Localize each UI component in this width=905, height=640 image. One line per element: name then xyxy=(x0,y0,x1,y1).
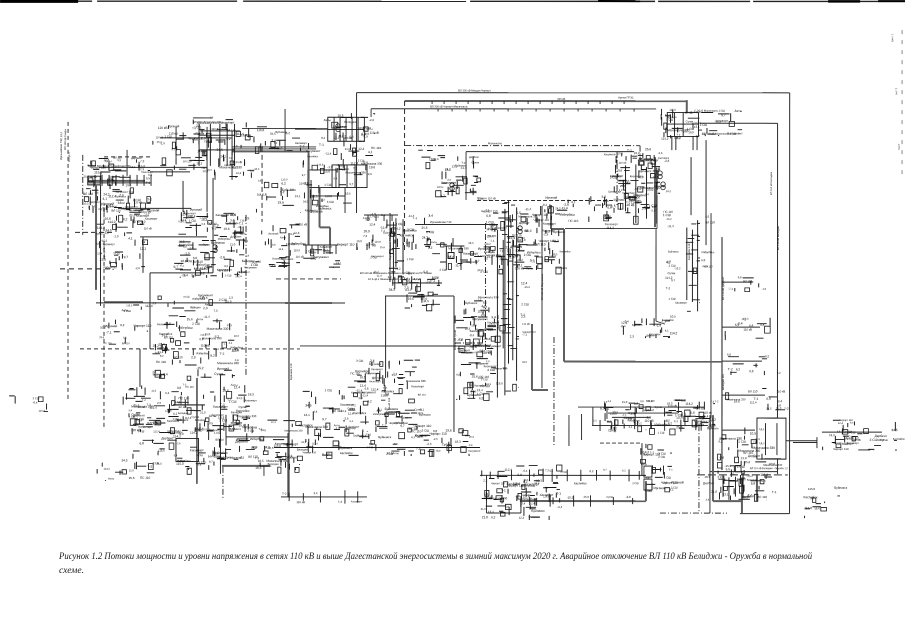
svg-text:110 кВ: 110 кВ xyxy=(156,136,164,139)
svg-text:0,8: 0,8 xyxy=(652,205,656,209)
svg-text:Касумкент: Касумкент xyxy=(194,267,209,271)
wire v607 xyxy=(606,407,608,419)
svg-text:2 СШ: 2 СШ xyxy=(658,452,666,456)
svg-text:5,5: 5,5 xyxy=(705,215,709,219)
svg-text:2,3: 2,3 xyxy=(129,190,134,194)
svg-text:10,5: 10,5 xyxy=(268,447,274,450)
svg-text:-2,6: -2,6 xyxy=(135,266,140,270)
wire h215 tree xyxy=(364,214,398,216)
svg-text:6,8: 6,8 xyxy=(486,337,491,341)
svg-text:Чирюрт 110: Чирюрт 110 xyxy=(303,451,317,454)
svg-text:12,4: 12,4 xyxy=(293,231,299,235)
svg-text:25,6: 25,6 xyxy=(99,336,104,339)
tree ticks xyxy=(367,215,369,221)
svg-text:Каспийск: Каспийск xyxy=(617,179,630,183)
svg-text:Избербаш: Избербаш xyxy=(560,213,576,217)
node chain gray Belidzhi xyxy=(520,494,646,506)
cluster w4 xyxy=(251,222,308,268)
svg-text:Касумкент: Касумкент xyxy=(313,255,329,259)
svg-text:110 кВ: 110 кВ xyxy=(144,227,152,230)
svg-text:Белиджи: Белиджи xyxy=(231,411,243,414)
svg-text:Буйнакск 110: Буйнакск 110 xyxy=(290,363,293,380)
svg-text:Дербент: Дербент xyxy=(748,454,761,458)
wire gray seg2 xyxy=(222,465,270,467)
svg-text:34,5: 34,5 xyxy=(217,148,223,152)
wire v150 xyxy=(149,273,151,310)
wire stub xyxy=(722,326,760,328)
svg-text:Сулак: Сулак xyxy=(668,271,677,275)
bus cluster w xyxy=(83,157,159,214)
svg-text:10,5: 10,5 xyxy=(258,459,264,463)
plant frame NW (Chirkey) xyxy=(199,124,235,166)
svg-text:Хасавюрт: Хасавюрт xyxy=(715,119,728,123)
svg-text:ПС 110: ПС 110 xyxy=(140,476,151,480)
svg-text:ВЛ 110: ВЛ 110 xyxy=(743,279,752,283)
svg-text:112,4: 112,4 xyxy=(432,277,439,280)
svg-text:-2,6: -2,6 xyxy=(447,179,452,182)
svg-text:-7,1: -7,1 xyxy=(116,200,122,204)
svg-text:8,2+j1,4: 8,2+j1,4 xyxy=(68,152,71,162)
svg-text:Ахты: Ахты xyxy=(177,459,185,463)
wire dashdot h513 xyxy=(660,512,727,514)
wire h405 node xyxy=(173,404,205,406)
svg-text:1 СШ: 1 СШ xyxy=(325,388,333,392)
svg-text:2,3: 2,3 xyxy=(639,175,644,179)
cluster Levashi xyxy=(152,293,243,380)
svg-text:Кизилюрт: Кизилюрт xyxy=(245,399,258,402)
wire corridor1 xyxy=(710,471,778,473)
svg-text:ВЛ 110 кВ Сергокала: ВЛ 110 кВ Сергокала xyxy=(541,273,544,300)
svg-text:9,7: 9,7 xyxy=(349,182,353,186)
svg-text:6,8: 6,8 xyxy=(634,402,639,406)
wire v521 xyxy=(520,496,522,513)
svg-text:-7,1: -7,1 xyxy=(239,455,245,459)
svg-text:6,2: 6,2 xyxy=(676,136,681,140)
svg-text:3 СШ: 3 СШ xyxy=(844,430,852,434)
cluster Buinaksk xyxy=(123,383,258,433)
svg-text:-2,6: -2,6 xyxy=(426,280,432,284)
svg-text:6,8: 6,8 xyxy=(229,157,233,160)
svg-text:-11,4: -11,4 xyxy=(525,207,532,211)
svg-text:Касумкент: Касумкент xyxy=(727,131,743,135)
svg-text:Касумкент: Касумкент xyxy=(125,206,138,209)
wire xyxy=(551,228,564,230)
wire to east xyxy=(700,122,778,124)
wire v left gray xyxy=(95,185,97,290)
svg-text:2,3: 2,3 xyxy=(647,416,652,420)
svg-text:5,5: 5,5 xyxy=(525,228,529,232)
svg-text:5,5: 5,5 xyxy=(349,135,354,139)
svg-text:Избербаш: Избербаш xyxy=(192,298,205,301)
svg-text:7,3: 7,3 xyxy=(416,447,421,451)
svg-text:19,6: 19,6 xyxy=(369,165,375,169)
svg-text:21,0: 21,0 xyxy=(622,400,628,404)
svg-text:19,6: 19,6 xyxy=(278,200,285,204)
svg-text:2,3: 2,3 xyxy=(191,355,196,359)
node cluster 245 xyxy=(303,242,354,268)
svg-text:Буйнакск: Буйнакск xyxy=(419,413,431,417)
wire xyxy=(187,396,189,405)
svg-text:0,8: 0,8 xyxy=(365,387,369,391)
wire xyxy=(180,396,182,405)
svg-text:0,8: 0,8 xyxy=(235,359,239,362)
svg-text:9,7: 9,7 xyxy=(302,174,306,177)
svg-text:Т-2: Т-2 xyxy=(676,134,680,137)
svg-text:ПС 110: ПС 110 xyxy=(185,386,194,389)
wire gray pair S xyxy=(712,415,714,501)
svg-text:115,0: 115,0 xyxy=(513,482,520,486)
wire xyxy=(370,109,372,117)
wire xyxy=(465,152,467,200)
svg-text:2 СШ: 2 СШ xyxy=(521,302,529,306)
svg-text:-0,4: -0,4 xyxy=(151,389,156,393)
svg-text:4,1: 4,1 xyxy=(98,207,102,211)
svg-text:Буйнакск: Буйнакск xyxy=(340,446,353,450)
wire v691 xyxy=(690,157,692,215)
svg-text:ПС 110: ПС 110 xyxy=(135,220,145,224)
svg-text:8,2: 8,2 xyxy=(160,355,164,358)
cluster Oruzhba S xyxy=(804,504,826,519)
svg-text:Каспийск: Каспийск xyxy=(658,157,670,160)
svg-text:-7,1: -7,1 xyxy=(106,330,112,334)
svg-text:Каспийск: Каспийск xyxy=(574,481,587,485)
svg-text:Дербент: Дербент xyxy=(90,201,101,204)
trunk band Makhachkala east xyxy=(665,215,715,312)
svg-text:10,5: 10,5 xyxy=(337,114,343,118)
svg-text:110 кВ: 110 кВ xyxy=(200,344,209,348)
svg-text:10,5: 10,5 xyxy=(356,239,362,243)
svg-text:Хасавюрт: Хасавюрт xyxy=(295,142,308,145)
svg-text:Хасавюрт: Хасавюрт xyxy=(320,245,333,249)
svg-text:Т-2: Т-2 xyxy=(220,352,225,356)
svg-text:Т-1: Т-1 xyxy=(91,205,96,208)
svg-text:2,3: 2,3 xyxy=(153,302,157,305)
svg-text:25,6: 25,6 xyxy=(380,246,386,249)
wire thin pair S xyxy=(709,415,711,513)
svg-text:2 СШ: 2 СШ xyxy=(219,418,227,422)
svg-text:12,4: 12,4 xyxy=(621,321,627,325)
svg-text:1 СШ: 1 СШ xyxy=(664,476,672,480)
svg-text:ВЛ 110 кВ Белиджи - Оружба 1,2: ВЛ 110 кВ Белиджи - Оружба 1,2 xyxy=(750,467,788,470)
wire gray SW2h xyxy=(320,226,331,228)
svg-text:1 СШ: 1 СШ xyxy=(417,293,425,297)
cluster trunk W side xyxy=(455,300,508,400)
svg-text:Хасавюрт: Хасавюрт xyxy=(623,417,636,420)
svg-text:2 СШ: 2 СШ xyxy=(669,264,676,268)
svg-text:6,8: 6,8 xyxy=(486,214,491,218)
svg-text:Махачкала 330: Махачкала 330 xyxy=(207,327,229,331)
svg-text:1 СШ: 1 СШ xyxy=(324,183,331,187)
wire v288 xyxy=(287,433,289,497)
wire h145a xyxy=(232,146,316,148)
svg-text:Избербаш: Избербаш xyxy=(373,413,385,416)
svg-text:Ахты: Ахты xyxy=(213,451,220,455)
svg-text:Ахты: Ахты xyxy=(90,175,97,179)
svg-text:ПС 110: ПС 110 xyxy=(371,146,382,150)
svg-text:ПС 110: ПС 110 xyxy=(103,342,112,345)
svg-text:-11,4: -11,4 xyxy=(380,214,386,217)
svg-text:114,2: 114,2 xyxy=(173,435,181,439)
wire v215 xyxy=(214,172,216,180)
svg-text:Махачкала 330: Махачкала 330 xyxy=(478,295,499,299)
svg-text:6,8: 6,8 xyxy=(262,193,267,197)
svg-text:Т-1: Т-1 xyxy=(259,428,264,431)
svg-text:34,5: 34,5 xyxy=(374,216,380,219)
svg-text:Касумкент: Касумкент xyxy=(366,372,379,375)
svg-text:0,8: 0,8 xyxy=(433,429,438,433)
svg-text:Ирганай: Ирганай xyxy=(105,324,117,328)
labels E2 xyxy=(725,318,770,341)
svg-text:4,1: 4,1 xyxy=(173,412,178,416)
svg-text:Т-1: Т-1 xyxy=(556,492,561,496)
svg-text:10,5: 10,5 xyxy=(750,432,756,436)
svg-text:-0,4: -0,4 xyxy=(33,400,38,404)
wire v152 xyxy=(149,310,151,349)
svg-text:0,8: 0,8 xyxy=(640,400,644,403)
svg-text:ВЛ 110: ВЛ 110 xyxy=(418,394,427,397)
svg-text:Т-1: Т-1 xyxy=(669,469,673,472)
svg-text:2 СШ: 2 СШ xyxy=(440,268,447,272)
svg-text:3 СШ: 3 СШ xyxy=(196,454,203,457)
svg-text:Дербент: Дербент xyxy=(519,221,531,225)
svg-text:ВЛ 110 кВ Махачкала-Ленинкент: ВЛ 110 кВ Махачкала-Ленинкент с отпайкой… xyxy=(360,272,432,275)
svg-text:Т-1: Т-1 xyxy=(627,149,632,153)
svg-text:Избербаш: Избербаш xyxy=(702,251,715,254)
box Buinaksk2 xyxy=(176,438,199,461)
labels E of box xyxy=(833,428,854,448)
wire gray SW2 xyxy=(319,188,321,228)
svg-text:-15,2: -15,2 xyxy=(746,474,753,478)
wire h832 xyxy=(822,431,882,433)
svg-text:Избербаш: Избербаш xyxy=(196,352,209,355)
svg-text:Махачкала 330: Махачкала 330 xyxy=(284,429,303,432)
svg-text:1 СШ: 1 СШ xyxy=(663,213,671,217)
wire h mid xyxy=(300,345,490,347)
svg-text:-15,2: -15,2 xyxy=(674,267,681,270)
svg-text:6,2: 6,2 xyxy=(200,271,205,275)
svg-text:Белиджи: Белиджи xyxy=(190,306,201,309)
svg-text:8,2: 8,2 xyxy=(290,233,294,236)
svg-text:Хасавюрт: Хасавюрт xyxy=(340,403,355,407)
labels W mid xyxy=(99,304,153,345)
svg-text:1 СШ: 1 СШ xyxy=(407,257,414,261)
wire stub xyxy=(722,394,765,396)
svg-text:-0,4: -0,4 xyxy=(737,321,743,325)
wire v311 xyxy=(310,180,312,213)
svg-text:25,6: 25,6 xyxy=(584,495,590,499)
wire dash h279 xyxy=(276,278,341,280)
wire h413 xyxy=(608,412,678,414)
svg-text:Ирганай: Ирганай xyxy=(268,233,279,236)
wire xyxy=(639,146,641,160)
svg-text:114,2: 114,2 xyxy=(551,239,559,243)
svg-text:9,7: 9,7 xyxy=(155,351,159,355)
box Chirkey xyxy=(88,176,101,185)
svg-text:13,1: 13,1 xyxy=(140,247,147,251)
svg-text:Избербаш: Избербаш xyxy=(167,429,181,433)
wire h417 xyxy=(612,416,650,418)
svg-text:114,2: 114,2 xyxy=(190,431,198,435)
svg-text:Кизилюрт: Кизилюрт xyxy=(369,380,381,383)
svg-text:Гергебильская ГЭС: Гергебильская ГЭС xyxy=(389,236,392,260)
svg-text:-15,2: -15,2 xyxy=(524,286,531,289)
svg-text:Т-1: Т-1 xyxy=(501,489,506,493)
wire gray SW1h xyxy=(232,150,308,152)
wire v262 dash xyxy=(261,147,263,222)
svg-text:-1,9: -1,9 xyxy=(363,135,368,138)
svg-text:Чирюрт 110: Чирюрт 110 xyxy=(522,331,536,334)
svg-text:-0,4: -0,4 xyxy=(333,177,338,180)
wire h172 xyxy=(150,171,190,173)
svg-text:-2,6: -2,6 xyxy=(344,416,349,420)
svg-text:Каспийск: Каспийск xyxy=(159,332,173,336)
wire gray seg xyxy=(285,302,332,304)
svg-text:21,0: 21,0 xyxy=(776,406,782,410)
svg-text:Ахты: Ахты xyxy=(96,232,103,236)
svg-text:Касумкент: Касумкент xyxy=(604,153,617,156)
svg-text:1 СШ: 1 СШ xyxy=(189,219,197,223)
wire link Makhachkala-trunk xyxy=(705,140,707,245)
wire v dash far left xyxy=(67,122,69,400)
svg-text:Т-2: Т-2 xyxy=(282,492,287,496)
svg-text:-7,1: -7,1 xyxy=(741,318,746,321)
svg-text:Ахты: Ахты xyxy=(431,241,437,244)
svg-text:Т-1: Т-1 xyxy=(630,412,635,416)
svg-text:114,2: 114,2 xyxy=(606,226,614,230)
svg-text:116,8: 116,8 xyxy=(804,506,812,510)
svg-text:10,5: 10,5 xyxy=(83,202,89,205)
svg-text:Кизилюрт: Кизилюрт xyxy=(842,443,854,446)
svg-text:9,7: 9,7 xyxy=(600,407,605,411)
labels E3 xyxy=(727,352,781,375)
svg-text:Дербент: Дербент xyxy=(348,425,360,429)
svg-text:112,4: 112,4 xyxy=(505,468,513,472)
svg-text:13,1: 13,1 xyxy=(516,263,522,267)
svg-text:Буйнакск: Буйнакск xyxy=(282,188,296,192)
svg-text:7,3: 7,3 xyxy=(404,286,409,290)
svg-text:34,5: 34,5 xyxy=(121,458,127,462)
svg-text:10,5: 10,5 xyxy=(429,157,435,161)
svg-text:116,8: 116,8 xyxy=(359,140,366,143)
svg-text:115,0: 115,0 xyxy=(94,170,102,174)
wire dashdot h205 xyxy=(595,204,617,206)
wire h237 xyxy=(140,236,207,238)
svg-text:8,2: 8,2 xyxy=(483,301,487,305)
svg-text:Белиджи 110: Белиджи 110 xyxy=(722,373,725,390)
trunk band Makhachkala xyxy=(603,153,673,230)
svg-text:2 СШ: 2 СШ xyxy=(306,249,313,253)
svg-text:6,2: 6,2 xyxy=(349,420,353,423)
svg-text:12,4: 12,4 xyxy=(181,219,187,222)
svg-text:18,3: 18,3 xyxy=(218,122,224,125)
wire stub xyxy=(722,429,755,431)
svg-text:ВЛ 110: ВЛ 110 xyxy=(227,129,236,132)
wire gray SW2v xyxy=(329,227,331,245)
cluster E far xyxy=(823,419,905,451)
wire v232 xyxy=(231,131,233,180)
svg-text:Ахты: Ахты xyxy=(414,278,420,281)
cluster Chiryurt GES xyxy=(319,113,382,176)
svg-text:Сулак: Сулак xyxy=(195,132,204,136)
svg-text:115,0: 115,0 xyxy=(676,417,683,420)
svg-text:Каспийск: Каспийск xyxy=(403,228,417,232)
svg-text:112,4: 112,4 xyxy=(185,417,192,420)
wire dashdot v82 xyxy=(82,155,84,235)
svg-text:Т-2: Т-2 xyxy=(273,142,277,145)
svg-text:-1,9: -1,9 xyxy=(245,255,250,258)
svg-text:21,0: 21,0 xyxy=(200,411,206,415)
svg-text:Т-1: Т-1 xyxy=(772,490,777,494)
substation box Belidzhi xyxy=(757,418,786,459)
svg-text:2 СШ: 2 СШ xyxy=(846,435,854,439)
wire xyxy=(656,195,658,229)
svg-text:3,4: 3,4 xyxy=(128,409,132,412)
svg-text:Дербент: Дербент xyxy=(230,235,242,239)
svg-text:ВЛ 110: ВЛ 110 xyxy=(748,389,758,393)
svg-text:2 СШ: 2 СШ xyxy=(632,482,639,485)
svg-text:-1,9: -1,9 xyxy=(369,215,374,218)
svg-text:18,3: 18,3 xyxy=(248,392,254,396)
svg-text:3 СШ: 3 СШ xyxy=(700,123,708,127)
svg-text:Каспийск: Каспийск xyxy=(167,419,180,423)
svg-text:0,8: 0,8 xyxy=(749,369,754,373)
svg-text:12,4: 12,4 xyxy=(271,421,276,424)
svg-text:4,1: 4,1 xyxy=(368,150,373,154)
svg-text:13,1: 13,1 xyxy=(130,166,136,169)
wire v183 xyxy=(182,181,184,212)
svg-text:-15,2: -15,2 xyxy=(322,249,328,252)
svg-text:25,6: 25,6 xyxy=(548,223,553,226)
leads below NE box xyxy=(671,136,673,150)
tick row under VL330 xyxy=(431,101,433,104)
wire node row 245 xyxy=(303,244,338,246)
svg-text:5,5: 5,5 xyxy=(146,176,151,180)
svg-text:34,5: 34,5 xyxy=(156,462,162,466)
svg-text:2 СШ: 2 СШ xyxy=(426,230,434,234)
svg-text:Избербаш: Избербаш xyxy=(633,194,646,197)
svg-text:6,2: 6,2 xyxy=(736,367,741,371)
transformer symbols xyxy=(213,124,665,253)
svg-text:13,1: 13,1 xyxy=(304,413,310,417)
svg-text:-2,6: -2,6 xyxy=(94,192,99,195)
svg-text:6,2: 6,2 xyxy=(165,391,169,395)
svg-text:Т-1: Т-1 xyxy=(319,143,324,147)
labels n xyxy=(247,127,308,152)
svg-text:Чирюрт 110: Чирюрт 110 xyxy=(389,421,405,425)
svg-text:6,8: 6,8 xyxy=(727,352,731,356)
svg-text:Касумкент: Касумкент xyxy=(244,266,258,269)
wire gray drop757 xyxy=(756,474,758,501)
svg-text:ВЛ 110 кВ Белиджи: ВЛ 110 кВ Белиджи xyxy=(777,225,780,250)
svg-text:Сулак: Сулак xyxy=(414,408,422,411)
svg-text:13,1: 13,1 xyxy=(295,194,301,198)
svg-text:6,8: 6,8 xyxy=(751,482,756,486)
wire branch E2 xyxy=(793,442,817,444)
svg-text:Касумкент: Касумкент xyxy=(472,317,488,321)
svg-text:-2,6: -2,6 xyxy=(658,152,663,155)
svg-text:Хасавюрт: Хасавюрт xyxy=(215,213,230,217)
svg-text:Кизилюрт: Кизилюрт xyxy=(411,384,425,388)
wire gray drop Oruzhba xyxy=(741,478,743,513)
svg-text:13,1: 13,1 xyxy=(723,492,729,496)
svg-text:Ирганайская ГЭС 13,4: Ирганайская ГЭС 13,4 xyxy=(60,131,63,159)
wire v127 xyxy=(126,150,128,176)
svg-text:Ирганай: Ирганай xyxy=(545,196,557,200)
svg-text:Т-1: Т-1 xyxy=(413,216,418,220)
svg-text:-2,6: -2,6 xyxy=(219,255,225,259)
svg-text:116,8: 116,8 xyxy=(518,238,525,242)
svg-text:ТД-1: ТД-1 xyxy=(759,428,765,431)
